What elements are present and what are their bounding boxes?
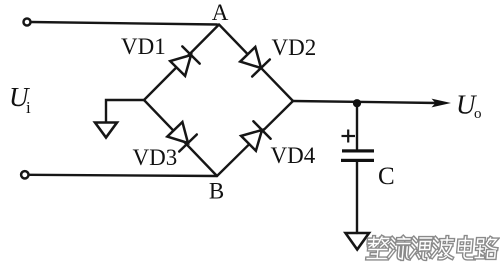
svg-text:VD4: VD4 bbox=[271, 143, 316, 168]
svg-text:C: C bbox=[378, 163, 395, 190]
svg-text:VD3: VD3 bbox=[133, 145, 178, 170]
svg-text:o: o bbox=[474, 106, 482, 122]
svg-text:B: B bbox=[209, 179, 224, 204]
svg-text:A: A bbox=[212, 0, 229, 25]
svg-text:i: i bbox=[26, 98, 31, 117]
svg-text:VD1: VD1 bbox=[121, 34, 166, 59]
svg-text:VD2: VD2 bbox=[272, 35, 317, 60]
